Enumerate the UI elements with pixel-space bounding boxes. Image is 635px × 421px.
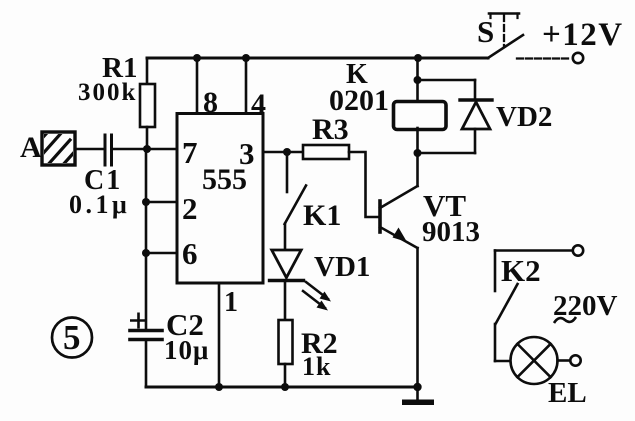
wire pin2	[146, 201, 177, 204]
label tilde 220V	[554, 317, 576, 323]
lamp EL	[511, 337, 558, 384]
terminal +12V circle	[573, 53, 583, 63]
node junction pin6	[142, 249, 150, 257]
svg-text:VD1: VD1	[314, 251, 370, 283]
svg-text:9013: 9013	[422, 216, 480, 248]
svg-text:R3: R3	[312, 113, 349, 146]
wire left rail down	[145, 149, 148, 330]
switch S	[488, 35, 523, 58]
wire pin4	[245, 58, 248, 113]
svg-text:K2: K2	[501, 253, 541, 288]
wire R1 top lead	[146, 58, 149, 84]
node junction pin8 top	[193, 54, 201, 62]
wire VD1 to R2	[284, 281, 287, 320]
node junction pin3/K1	[283, 148, 291, 156]
svg-text:1k: 1k	[302, 352, 331, 381]
svg-text:7: 7	[182, 135, 198, 170]
wire R2 to bus	[284, 364, 287, 387]
wire A to C1	[75, 148, 103, 151]
svg-text:4: 4	[251, 88, 266, 121]
diode VD2	[418, 79, 476, 82]
resistor R1	[140, 84, 155, 127]
svg-text:+12V: +12V	[542, 17, 624, 53]
wire emitter down	[416, 248, 419, 387]
svg-text:EL: EL	[548, 377, 587, 409]
svg-text:555: 555	[202, 163, 247, 196]
label plus C2	[130, 313, 147, 329]
wire +12V branch down	[416, 58, 419, 103]
terminal A hatched box	[34, 123, 94, 190]
svg-text:A: A	[20, 131, 42, 164]
node junction C1/R1	[143, 145, 151, 153]
wire R3 to base	[349, 152, 380, 217]
op-amp U1 555 IC box	[177, 114, 263, 284]
wire C1 to pin7	[114, 148, 177, 151]
terminal K2 top circle	[573, 245, 583, 255]
LED VD1	[270, 250, 304, 281]
capacitor C2	[130, 331, 162, 340]
resistor R2	[279, 320, 293, 364]
node junction R2 bus	[281, 383, 289, 391]
relay K coil box	[394, 102, 447, 130]
svg-text:1: 1	[224, 287, 238, 318]
figure number circle 5	[52, 318, 92, 358]
wire top bus	[147, 57, 488, 60]
wire pin1	[218, 283, 221, 387]
node junction relay top	[414, 76, 422, 84]
capacitor C1	[105, 135, 112, 165]
LED VD1 arrows	[303, 282, 331, 311]
svg-text:VD2: VD2	[496, 101, 552, 133]
terminal EL right circle	[570, 355, 580, 365]
svg-text:6: 6	[182, 236, 198, 271]
transistor Q1 VT	[378, 201, 382, 232]
svg-text:S: S	[477, 14, 494, 49]
svg-text:5: 5	[63, 318, 81, 357]
svg-text:300k: 300k	[78, 79, 137, 106]
wire pin8	[196, 58, 199, 113]
wire R1 bottom lead	[146, 127, 149, 150]
ground	[416, 387, 419, 400]
node junction switch branch	[414, 54, 422, 62]
wire C2 bottom	[145, 340, 148, 387]
wire bottom bus	[146, 386, 418, 389]
wire K1 to VD1	[284, 224, 287, 250]
wire pin6	[146, 252, 177, 255]
svg-text:10μ: 10μ	[164, 335, 209, 365]
node junction ground	[413, 383, 421, 391]
wire relay bottom	[416, 128, 419, 186]
node junction relay bottom	[414, 149, 422, 157]
switch K1	[286, 152, 289, 192]
node junction pin2	[142, 198, 150, 206]
svg-text:8: 8	[203, 86, 218, 119]
switch K2	[495, 249, 572, 252]
svg-text:K1: K1	[303, 199, 341, 232]
wire pin3	[263, 151, 303, 154]
svg-text:2: 2	[182, 191, 198, 226]
resistor R3	[303, 145, 349, 159]
svg-text:0.1μ: 0.1μ	[69, 190, 130, 219]
node junction pin4 top	[242, 54, 250, 62]
node junction pin1 bus	[215, 383, 223, 391]
